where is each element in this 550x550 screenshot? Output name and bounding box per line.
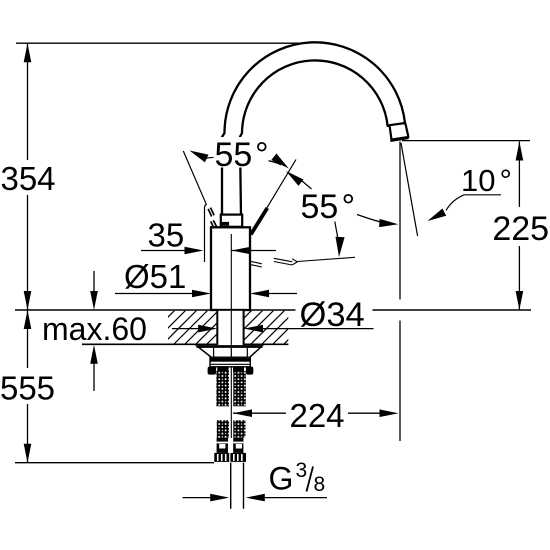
arrow 555 bottom (down): [24, 444, 32, 463]
10deg label underline: [464, 194, 501, 196]
cap black detail: [221, 222, 229, 226]
svg-text:8: 8: [314, 473, 326, 496]
swivel range line: [297, 257, 355, 261]
arrow 35 right (left-pointing, over body): [232, 247, 251, 255]
arrow O34 left (right-pointing): [198, 325, 217, 333]
svg-text:°: °: [500, 163, 512, 198]
10deg leader curve: [446, 195, 464, 211]
arrow right 55deg arc at lever ray (NW-pointing): [286, 171, 304, 186]
arrow O34 right (left-pointing): [244, 325, 263, 333]
arrow 354 bottom (down): [24, 291, 32, 310]
svg-text:55: 55: [301, 188, 339, 226]
mounting nut: [210, 357, 250, 367]
svg-text:35: 35: [148, 216, 185, 253]
svg-text:225: 225: [492, 210, 549, 248]
arrow 555 top (up): [24, 310, 32, 329]
svg-text:3: 3: [296, 459, 308, 482]
svg-text:°: °: [255, 136, 269, 174]
dim 35 right line (over body): [232, 250, 277, 252]
outlet lip: [390, 138, 408, 141]
svg-text:10: 10: [461, 163, 495, 198]
top extension line (spout crown): [16, 42, 303, 44]
cap collar on body: [221, 215, 242, 227]
hose crimps: [214, 453, 229, 462]
arrow O51 right (left-pointing): [250, 290, 269, 298]
body: [211, 227, 250, 310]
svg-text:555: 555: [0, 370, 55, 407]
arrow 35 left (right-pointing): [185, 247, 204, 255]
arrow max60 lower (up): [90, 345, 98, 364]
ext line for 35: [204, 208, 206, 262]
hose nuts: [217, 438, 228, 453]
dim G3/8 lines: [183, 497, 216, 499]
counter bottom line: [82, 343, 217, 345]
arrow 224 right (right-pointing): [380, 409, 399, 417]
right ear: [246, 367, 253, 375]
lever extension ray: [252, 160, 297, 234]
left 55deg arc right piece: [268, 161, 282, 165]
dim 555 vertical line: [27, 310, 29, 368]
arrow right 55deg at outlet vertical (right-pointing): [379, 219, 398, 227]
svg-text:354: 354: [0, 160, 55, 197]
svg-text:G: G: [269, 460, 294, 496]
svg-text:max.60: max.60: [42, 311, 147, 347]
10 deg tilted outlet axis line: [401, 143, 418, 236]
ext line from outlet down (224 right side): [399, 142, 401, 300]
arrow 225 bottom (down): [516, 291, 524, 310]
svg-text:224: 224: [289, 397, 344, 434]
ext line outlet horizontal (225 top): [402, 140, 530, 142]
ext line at hose end (555 bottom): [15, 462, 214, 464]
dim 225 vertical line: [518, 142, 520, 208]
dim 354 vertical line: [27, 43, 29, 160]
dim 35 lines: [141, 250, 189, 252]
spout tube (arc): [222, 42, 405, 215]
svg-text:Ø34: Ø34: [300, 296, 365, 334]
right 55deg arc tail (to label): [299, 178, 312, 189]
left ear: [208, 367, 217, 375]
dim 224 line: [233, 412, 286, 414]
arrow 354 top (up): [24, 43, 32, 62]
dim Ø51 lines: [115, 293, 196, 295]
left 55deg arc stub: [203, 157, 215, 159]
braided hoses upper: [216, 371, 229, 406]
arrow O51 left (right-pointing): [192, 290, 211, 298]
swivel double-line symbol: [250, 261, 262, 264]
arrow max60 upper (down): [90, 291, 98, 310]
braided hoses lower: [217, 420, 229, 438]
swivel range leader stem: [335, 222, 338, 241]
left 55deg ray: [183, 151, 206, 208]
shank centerline visible: [230, 311, 232, 345]
arrow swivel leader (down-pointing): [336, 237, 345, 257]
svg-text:Ø51: Ø51: [124, 258, 186, 295]
countertop hatch: [140, 309, 319, 345]
hose collars: [217, 367, 228, 372]
counter top line: [15, 309, 531, 311]
G3/8 connection tubes: [230, 463, 232, 509]
svg-text:55: 55: [215, 136, 253, 174]
shank through counter: [217, 311, 243, 345]
flange cone: [197, 346, 262, 357]
right 55deg leader to vertical line: [357, 215, 385, 224]
dim Ø34 lines: [172, 328, 203, 330]
arrow 10deg leader (left-down-pointing): [428, 209, 447, 222]
handle ghost dashes: [208, 209, 212, 217]
arrow 225 top (up): [516, 142, 524, 161]
centerline: [230, 234, 232, 438]
svg-text:°: °: [342, 188, 356, 226]
arrow G38 right (left-pointing): [246, 494, 265, 502]
arrow 224 left (left-pointing): [233, 409, 252, 417]
outlet aerator: [390, 123, 409, 140]
lever handle: [251, 208, 267, 235]
white mask behind O34 label: [296, 302, 373, 328]
arrow left 55deg arc at lever ray (SE-pointing): [271, 154, 289, 169]
arrow left 55deg arc end (up-left-pointing): [190, 151, 209, 163]
max.60 arrows stems: [93, 271, 95, 295]
arrow G38 left (right-pointing): [210, 494, 229, 502]
white mask behind left 55 label: [214, 137, 269, 168]
